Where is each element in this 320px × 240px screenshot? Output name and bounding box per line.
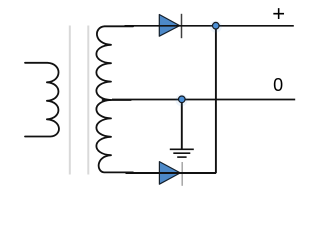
wire: top rail through D1 to + terminal xyxy=(125,25,294,27)
diode D2 body (bottom) xyxy=(159,162,180,185)
junction node at center tap xyxy=(179,96,186,103)
wire: bottom rail through D2 to corner xyxy=(126,172,217,174)
diode D2 cathode bar xyxy=(181,162,183,186)
ground symbol xyxy=(170,149,194,157)
wire: center tap to 0 terminal xyxy=(112,99,295,101)
secondary winding L2 (center-tapped) with stub leads xyxy=(96,26,133,172)
wire: ground stem from center tap junction xyxy=(181,100,183,149)
svg-text:0: 0 xyxy=(273,75,283,95)
wire: right vertical from + junction down to bottom corner xyxy=(215,26,217,173)
transformer core line right xyxy=(87,26,89,175)
center tap stub lead xyxy=(102,99,132,101)
junction node halo at + rail xyxy=(210,21,222,33)
primary winding L1 xyxy=(25,63,59,137)
diode D1 cathode bar xyxy=(181,14,183,38)
junction node halo at center tap xyxy=(176,94,188,106)
diode D1 body (top) xyxy=(159,15,179,37)
junction node at + rail xyxy=(213,22,220,29)
svg-text:+: + xyxy=(272,1,285,26)
transformer core line left xyxy=(69,26,71,175)
